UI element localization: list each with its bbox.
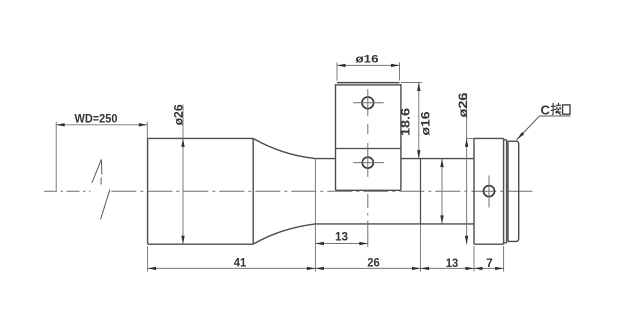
object plane break symbol upper spike [92, 159, 102, 182]
dimension phi16 block line [337, 64, 400, 66]
dimension 13 top arrow right [359, 242, 368, 245]
ext line tube seam bottom [420, 224, 422, 272]
svg-text:13: 13 [446, 256, 459, 270]
ext line cone end [314, 159, 316, 272]
C-mount label kou glyph [563, 105, 570, 114]
ext line flange right bottom [503, 246, 505, 272]
svg-text:ø16: ø16 [418, 111, 432, 135]
bottom chain arrows at 474 [466, 267, 483, 270]
dimension 18.6 arrow bottom [417, 150, 420, 159]
ext line front face bottom [147, 246, 149, 272]
dimension phi16 tube arrow bottom [440, 215, 443, 224]
C-mount leader arrowhead [517, 132, 524, 140]
illumination block body [336, 84, 401, 190]
dimension 18.6 arrow top [417, 83, 420, 92]
bottom dimension chain line [148, 267, 504, 269]
bottom chain arrow at 147.6 [148, 267, 157, 270]
dimension phi16 block arrow right [391, 64, 400, 67]
flange screw hole crosshair [488, 176, 490, 208]
svg-text:7: 7 [486, 256, 493, 270]
screw hole H1 circle [362, 97, 374, 109]
dimension WD=250 extension line right [146, 122, 148, 139]
screw hole H1 crosshair [353, 89, 383, 116]
dimension phi26 flange line [466, 93, 468, 244]
svg-text:C: C [541, 103, 551, 118]
ring R1 [504, 140, 507, 243]
svg-text:ø16: ø16 [356, 54, 379, 66]
ring R2 C-mount [508, 141, 519, 241]
cone taper bottom curve [253, 224, 315, 244]
bottom chain arrows at 420.5 [412, 267, 429, 270]
dimension WD=250 extension line left [55, 122, 57, 192]
dimension 18.6 line [418, 83, 420, 159]
dimension phi26 flange arrow top [465, 138, 468, 147]
bottom chain arrows at 315.4 [307, 267, 324, 270]
screw hole H2 circle [362, 157, 373, 168]
cone taper top curve [253, 139, 315, 159]
svg-text:13: 13 [335, 230, 348, 244]
ext line flange left bottom [473, 246, 475, 272]
svg-text:ø26: ø26 [171, 104, 185, 125]
dimension 13 top line [315, 243, 367, 245]
dimension phi26 flange stub [467, 137, 474, 139]
dimension WD=250 line [56, 124, 147, 126]
dimension phi26 flange arrow bottom [465, 236, 468, 245]
dimension phi26 front arrow bottom [181, 236, 184, 245]
illumination block cap shading [337, 83, 400, 85]
front cylinder body [148, 138, 254, 244]
dimension phi26 front line [182, 105, 184, 245]
tube top edge [315, 158, 474, 160]
object plane break symbol center dash [100, 178, 102, 185]
svg-text:18.6: 18.6 [398, 108, 412, 136]
dimension WD=250 arrow right [139, 123, 148, 126]
svg-text:41: 41 [234, 256, 247, 270]
rear flange [474, 138, 504, 244]
centerline main axis right of break [111, 190, 534, 192]
dimension phi16 block arrow left [337, 64, 346, 67]
dimension phi16 tube line [441, 159, 443, 224]
flange screw hole circle [484, 186, 495, 197]
object plane break symbol lower slant [101, 190, 110, 220]
illumination block cap top line [337, 82, 400, 84]
illumination block shoulder line [336, 148, 401, 150]
dimension phi26 front arrow top [181, 138, 184, 147]
tube bottom edge [315, 223, 474, 225]
centerline main axis left of break [44, 190, 90, 192]
illumination block cap bottom line [336, 84, 401, 86]
C-mount label jie glyph [551, 103, 562, 115]
block hole centerline dash between holes [367, 124, 369, 134]
block hole centerline below block [367, 194, 369, 247]
dimension phi16 block ext lines [337, 63, 400, 81]
C-mount leader line [517, 116, 571, 140]
svg-text:ø26: ø26 [456, 92, 470, 117]
bottom chain arrow at 503.6 [495, 267, 504, 270]
svg-text:26: 26 [367, 256, 380, 270]
screw hole H2 crosshair [353, 143, 384, 177]
dimension WD=250 arrow left [56, 123, 64, 126]
svg-text:WD=250: WD=250 [75, 112, 118, 126]
tube seam [420, 159, 422, 224]
dimension 18.6 ext stub [401, 82, 422, 84]
dimension 13 top arrow left [315, 242, 324, 245]
dimension phi16 tube arrow top [440, 159, 443, 168]
